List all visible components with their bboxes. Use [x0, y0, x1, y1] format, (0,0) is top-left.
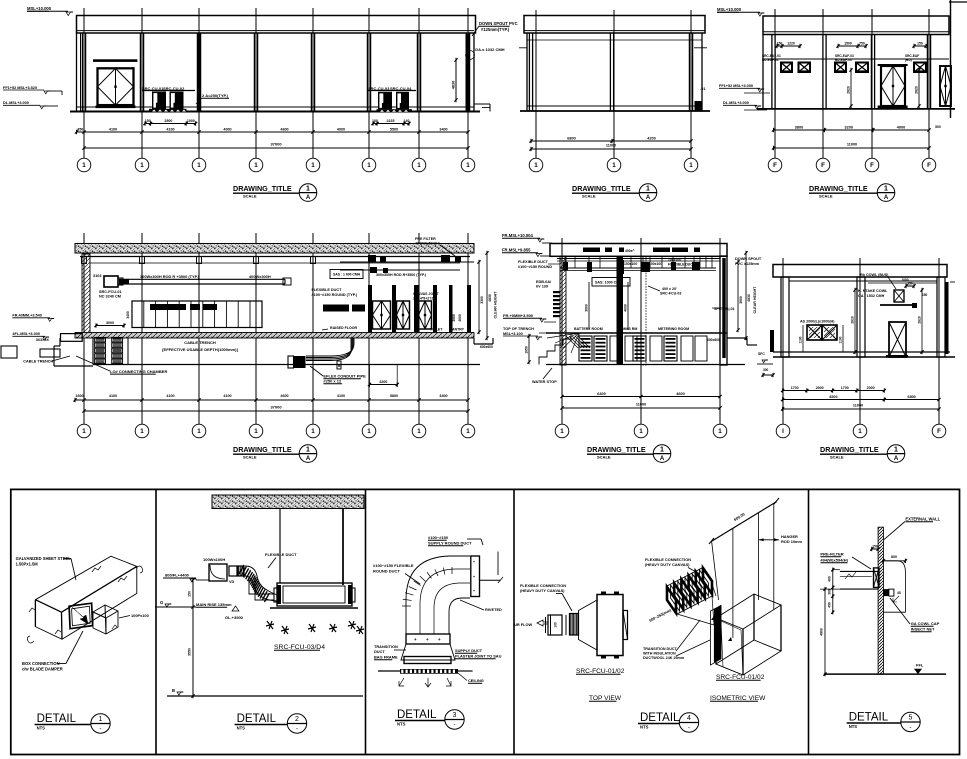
switchgear lineup — [132, 301, 262, 328]
section 1 roof hangers — [82, 257, 87, 264]
section 3 roof slab — [773, 265, 947, 278]
svg-text:600x600: 600x600 — [480, 345, 493, 349]
svg-text:1100: 1100 — [799, 336, 803, 343]
intake louver window 2 — [822, 325, 837, 340]
svg-text:BU-EAF-01: BU-EAF-01 — [762, 58, 779, 62]
svg-text:F: F — [821, 162, 825, 169]
filter box on wall — [874, 568, 880, 588]
svg-text:4000: 4000 — [223, 127, 231, 131]
svg-text:1000: 1000 — [901, 278, 908, 282]
isometric transition duct — [677, 584, 716, 625]
svg-text:3200: 3200 — [379, 380, 387, 384]
svg-text:3400: 3400 — [126, 311, 130, 319]
svg-text:8200: 8200 — [829, 395, 837, 399]
svg-text:AS 2000(L)x1000(H): AS 2000(L)x1000(H) — [800, 320, 835, 324]
svg-text:F: F — [870, 162, 874, 169]
stairs hatch — [566, 336, 578, 348]
room door 1 — [373, 301, 391, 329]
svg-text:300x300H ROD R+3500 (TYP.): 300x300H ROD R+3500 (TYP.) — [376, 273, 427, 277]
svg-text:1: 1 — [718, 428, 722, 435]
svg-text:K. NTAKE COWL: K. NTAKE COWL — [858, 289, 888, 293]
svg-text:SRC-FCU-01: SRC-FCU-01 — [99, 290, 122, 294]
svg-text:#100~#150 ROUND: #100~#150 ROUND — [518, 265, 552, 269]
vertical supply duct — [471, 556, 480, 597]
svg-text:4: 4 — [687, 715, 691, 722]
elevation 3 total dimension 11000 — [774, 147, 930, 149]
svg-text:150: 150 — [145, 119, 151, 123]
dim 1000 top right — [868, 282, 937, 284]
vertical dim right section 3 — [921, 290, 923, 352]
room door 3 — [419, 301, 432, 329]
diffuser grille ticks — [402, 670, 404, 674]
svg-text:DETAIL: DETAIL — [397, 709, 437, 721]
svg-text:3800: 3800 — [795, 125, 803, 129]
wireframe inner opening — [721, 621, 743, 675]
transition trapezoid — [401, 644, 455, 660]
svg-text:2820: 2820 — [847, 86, 851, 94]
svg-text:4100: 4100 — [109, 394, 117, 398]
flexible duct curve detail2 — [245, 566, 279, 595]
svg-text:1: 1 — [646, 185, 650, 192]
svg-text:1: 1 — [560, 428, 564, 435]
section 3 columns — [781, 277, 789, 357]
section 2 dimension row — [562, 396, 720, 398]
svg-text:400 x 20': 400 x 20' — [662, 287, 677, 291]
svg-text:A: A — [884, 195, 889, 201]
hanger arrow — [759, 538, 764, 541]
svg-text:NTS: NTS — [397, 722, 406, 727]
svg-text:PRE FILTER: PRE FILTER — [415, 237, 436, 241]
elevation 2 ground line — [520, 110, 710, 112]
svg-text:400Wx300H: 400Wx300H — [249, 274, 271, 279]
svg-text:[EFFECTIVE USABLE DEPTH(1000mm: [EFFECTIVE USABLE DEPTH(1000mm)] — [162, 347, 238, 352]
svg-text:CABLE TRENCH: CABLE TRENCH — [23, 360, 53, 364]
accordion outline — [667, 568, 712, 614]
svg-text:(BU): (BU) — [905, 58, 912, 62]
left dimension line detail2 — [192, 580, 194, 696]
elevation 2 grid bubbles — [535, 111, 537, 158]
svg-text:+: + — [426, 637, 429, 642]
svg-text:A: A — [306, 456, 311, 462]
svg-text:2 A=250(TYP.): 2 A=250(TYP.) — [202, 93, 229, 98]
svg-text:2000: 2000 — [867, 386, 875, 390]
elevation 3 door — [878, 64, 908, 66]
svg-text:1: 1 — [197, 162, 201, 169]
svg-text:1: 1 — [140, 162, 144, 169]
cowl vent box — [894, 290, 904, 302]
vertical dim 4800 — [824, 589, 826, 674]
detail divider 4 — [808, 489, 810, 754]
isometric flex accordion — [667, 568, 712, 613]
svg-text:4100: 4100 — [223, 394, 231, 398]
detail divider 2 — [365, 489, 367, 754]
detail divider 3 — [513, 489, 515, 754]
FCU bottom ceiling line — [270, 607, 358, 609]
svg-text:+: + — [473, 575, 475, 579]
section 1 grid bubbles — [83, 390, 85, 424]
svg-text:1: 1 — [99, 716, 103, 723]
conduit connector box — [294, 356, 306, 368]
svg-text:EXTERNAL WALL: EXTERNAL WALL — [905, 517, 940, 522]
downspout bar section 2 — [722, 258, 725, 358]
section 3 door — [889, 322, 906, 357]
svg-text:4100: 4100 — [109, 127, 117, 131]
svg-text:MAIN RISE 135mm: MAIN RISE 135mm — [196, 602, 232, 607]
anchor points — [711, 616, 715, 620]
svg-text:#250 x 12: #250 x 12 — [323, 379, 342, 384]
svg-text:A: A — [306, 195, 311, 201]
svg-text:SCALE: SCALE — [243, 454, 257, 459]
elevation 3 group — [717, 0, 967, 201]
svg-text:3600: 3600 — [452, 314, 456, 322]
svg-text:500: 500 — [935, 125, 941, 129]
svg-text:2?3 4*5+2?2: 2?3 4*5+2?2 — [413, 297, 433, 301]
svg-text:SRC-CU-04: SRC-CU-04 — [390, 86, 412, 91]
dim 3000 — [96, 325, 124, 327]
svg-text:494(W)x594(H): 494(W)x594(H) — [415, 242, 441, 246]
duct segments — [229, 566, 237, 576]
elevation 1 ground line — [70, 111, 480, 113]
svg-text:400x^: 400x^ — [625, 249, 635, 253]
svg-text:SFC-+01|-01: SFC-+01|-01 — [714, 307, 735, 311]
svg-text:3300: 3300 — [480, 296, 484, 304]
elevation 2 columns — [528, 33, 530, 111]
svg-text:4830: 4830 — [452, 81, 456, 89]
svg-text:DL.MSL+3.000: DL.MSL+3.000 — [3, 101, 29, 105]
elevation 1 total dimension 37000 — [84, 147, 468, 149]
svg-text:800: 800 — [891, 555, 897, 559]
svg-text:A: A — [894, 456, 899, 462]
svg-text:DUCTWOOL 24K 25mm: DUCTWOOL 24K 25mm — [643, 656, 685, 660]
svg-text:COMMS RM: COMMS RM — [617, 327, 637, 331]
right downspout section 3 — [946, 282, 949, 354]
grid lines section 3 — [782, 258, 784, 424]
svg-text:SCALE: SCALE — [243, 193, 257, 198]
svg-text:1: 1 — [466, 162, 470, 169]
svg-text:SRC-FCU-03: SRC-FCU-03 — [660, 292, 681, 296]
svg-text:1: 1 — [82, 428, 86, 435]
louver dims 150 1220 — [777, 45, 800, 47]
svg-text:DOWN SPOUT: DOWN SPOUT — [735, 257, 762, 261]
svg-text:GA.s 1032 CMH: GA.s 1032 CMH — [475, 47, 505, 52]
elevation 3 grid bubbles — [774, 109, 776, 158]
svg-text:150: 150 — [188, 591, 192, 597]
svg-text:SFC: SFC — [758, 352, 765, 356]
elevation 1 door D1 — [93, 59, 137, 62]
section 3 floor lines — [773, 351, 950, 353]
section 1 duct zone right black fittings — [368, 255, 376, 262]
svg-text:DRAWING_TITLE: DRAWING_TITLE — [233, 184, 292, 193]
svg-text:NTS: NTS — [37, 726, 46, 731]
section 2 floor line — [546, 332, 727, 334]
elevation 3 wall outline — [762, 35, 764, 109]
svg-text:140: 140 — [404, 119, 410, 123]
svg-text:ROD 10mm: ROD 10mm — [781, 539, 803, 544]
elevation 1 wall outline — [76, 33, 78, 112]
svg-text:CABLE TRENCH: CABLE TRENCH — [184, 340, 216, 345]
hanger rod right — [342, 509, 344, 586]
cowl angle arrow — [893, 596, 899, 602]
svg-text:NTS: NTS — [640, 725, 649, 730]
svg-text:-: - — [99, 726, 101, 733]
branch break mark — [112, 625, 117, 629]
svg-text:PVC #125mm: PVC #125mm — [735, 262, 760, 266]
vertical dim 2820 section 3 — [854, 290, 856, 352]
svg-text:1: 1 — [140, 428, 144, 435]
elevation 1 sill line — [77, 106, 475, 108]
svg-text:INSECT NET: INSECT NET — [911, 627, 935, 632]
ceiling diffuser lines — [378, 670, 400, 672]
svg-text:1: 1 — [534, 162, 538, 169]
svg-text:1: 1 — [367, 162, 371, 169]
svg-text:L-2 7/8: L-2 7/8 — [655, 249, 666, 253]
svg-text:METERING ROOM: METERING ROOM — [658, 327, 689, 331]
grid lines elevation 2 — [535, 10, 537, 158]
svg-text:F: F — [927, 162, 931, 169]
detail 1 group — [16, 556, 149, 733]
svg-text:1: 1 — [894, 446, 898, 453]
svg-text:300: 300 — [763, 368, 769, 372]
fan coil unit SRC-FCU-01 — [104, 276, 118, 287]
svg-text:FF1+52 MSL+3.520: FF1+52 MSL+3.520 — [3, 86, 37, 90]
dim 1950 stairs — [528, 336, 530, 362]
section 2 bottom step right — [727, 337, 747, 339]
ground line detail5 — [824, 673, 946, 675]
dim 4830 vertical — [455, 60, 457, 100]
kerb step right of elevation 1 — [474, 103, 490, 105]
break symbol dim — [845, 572, 856, 579]
condenser base hatch bar 2 — [377, 109, 412, 112]
svg-text:NTS: NTS — [849, 724, 858, 729]
supply duct black bars — [323, 305, 349, 312]
stairs section 2 — [539, 333, 579, 365]
svg-text:-: - — [688, 725, 690, 732]
left wall louver — [553, 291, 560, 293]
svg-text:NC 3240 CM: NC 3240 CM — [99, 295, 121, 299]
condenser sub-dimension row 2 — [373, 123, 409, 125]
svg-text:1100: 1100 — [839, 336, 843, 343]
condenser base hatch bar — [149, 109, 187, 112]
svg-text:ROUND DUCT: ROUND DUCT — [373, 569, 400, 574]
top view inlet duct — [548, 615, 562, 635]
detail 2 group — [155, 495, 364, 733]
svg-text:300Wx300H ROD R +3500 (TYP.): 300Wx300H ROD R +3500 (TYP.) — [140, 274, 200, 279]
svg-text:11000: 11000 — [853, 404, 863, 408]
isometric FCU wireframe box — [716, 594, 781, 629]
section 2 group — [502, 233, 762, 462]
grid lines elevation 3 — [774, 9, 776, 158]
svg-text:#100~#150 ROUND (TYP.): #100~#150 ROUND (TYP.) — [312, 293, 358, 297]
room partition walls — [368, 285, 372, 332]
section 1 grid dimension row — [75, 399, 468, 401]
svg-text:Rb COWL (BUS): Rb COWL (BUS) — [860, 273, 889, 277]
svg-text:-: - — [909, 724, 911, 731]
svg-text:FR.MSL+9.855: FR.MSL+9.855 — [502, 248, 531, 253]
svg-text:FF1+52 MSL+3.000: FF1+52 MSL+3.000 — [719, 84, 753, 88]
svg-text:SCALE: SCALE — [830, 454, 844, 459]
svg-text:FLEXIBLE DUCT: FLEXIBLE DUCT — [518, 260, 549, 264]
svg-text:5800: 5800 — [390, 394, 398, 398]
svg-text:1: 1 — [639, 428, 643, 435]
downspout at grid 3 — [198, 33, 201, 112]
svg-text:B: B — [172, 688, 175, 693]
section 2 bottom line — [546, 364, 745, 366]
svg-text:2820: 2820 — [915, 86, 919, 94]
section 3 interior ceiling line — [789, 280, 937, 282]
FCU left cap — [277, 585, 281, 604]
svg-text:1: 1 — [367, 428, 371, 435]
label SAS 600 CMH — [330, 270, 363, 279]
svg-text:100x100: 100x100 — [668, 258, 681, 262]
svg-text:150: 150 — [777, 41, 783, 45]
detail sheet frame — [11, 489, 960, 754]
svg-text:FLEXIBLE DUCT: FLEXIBLE DUCT — [312, 288, 343, 292]
svg-text:F: F — [937, 428, 941, 435]
section 1 eave line — [80, 256, 470, 258]
break loop symbol left — [27, 636, 34, 643]
supply grille box — [209, 564, 227, 581]
svg-text:3550: 3550 — [188, 648, 192, 656]
elevation 2 total dimension 11000 — [531, 148, 691, 150]
section 2 below-roof duct lines — [557, 258, 720, 260]
svg-text:1700: 1700 — [841, 386, 849, 390]
svg-text:100: 100 — [372, 119, 378, 123]
elbow into FCU — [249, 578, 274, 594]
svg-text:G: G — [160, 600, 163, 605]
vertical dim 4000 comms — [627, 282, 629, 330]
duct side line with break — [480, 579, 501, 581]
svg-text:LO# CONNECTING CHAMBER: LO# CONNECTING CHAMBER — [110, 369, 167, 374]
svg-text:1950: 1950 — [525, 346, 529, 354]
elevation 1 column grid lines — [81, 33, 83, 112]
svg-text:2: 2 — [295, 716, 299, 723]
svg-text:750: 750 — [859, 41, 865, 45]
section 1 left wall hatched — [82, 254, 90, 334]
svg-text:1: 1 — [82, 162, 86, 169]
svg-text:1: 1 — [306, 185, 310, 192]
elevation 2 column ticks — [519, 47, 527, 49]
svg-text:MSL+10.000: MSL+10.000 — [27, 6, 52, 11]
external wall hatched bar — [878, 527, 883, 674]
svg-text:800/FL+4400: 800/FL+4400 — [165, 573, 190, 578]
section 3 dimension row 2 — [783, 399, 939, 401]
duct hangers section 2 — [564, 256, 566, 268]
svg-text:FFL: FFL — [916, 663, 924, 668]
svg-text:GA : 1532 CMH: GA : 1532 CMH — [858, 294, 885, 298]
svg-text:1: 1 — [311, 428, 315, 435]
section 2 wall 3 dotted — [641, 256, 646, 365]
vertical dim 3600 battery — [588, 282, 590, 330]
svg-text:11000: 11000 — [606, 144, 616, 148]
svg-text:BAG FRAME: BAG FRAME — [374, 655, 398, 660]
svg-text:GALVANIZED SHEET STEEL: GALVANIZED SHEET STEEL — [16, 556, 72, 561]
svg-text:1: 1 — [660, 446, 664, 453]
svg-text:PRE-FILTER: PRE-FILTER — [820, 552, 843, 557]
svg-text:5: 5 — [909, 715, 913, 722]
svg-text:TOILET: TOILET — [430, 328, 443, 332]
left step blocks — [61, 334, 83, 342]
top view transition — [579, 600, 598, 650]
elevation 3 columns — [771, 35, 773, 109]
svg-text:#100~#150 FLEXIBLE: #100~#150 FLEXIBLE — [373, 563, 414, 568]
section 2 grid bubbles — [561, 390, 563, 424]
elevation 3 ground line — [757, 108, 955, 110]
svg-text:4100: 4100 — [166, 127, 174, 131]
louver sill dims — [802, 325, 804, 352]
louver dims 1500 750 — [838, 45, 866, 47]
svg-text:1: 1 — [858, 428, 862, 435]
svg-text:DRAWING_TITLE: DRAWING_TITLE — [233, 445, 292, 454]
svg-text:+: + — [473, 560, 475, 564]
svg-text:CLEAR HEIGHT: CLEAR HEIGHT — [753, 286, 757, 314]
svg-text:SUPPLY ROUND DUCT: SUPPLY ROUND DUCT — [428, 541, 472, 546]
flex duct corrugation — [239, 565, 244, 574]
section 1 total dimension 37000 — [84, 410, 468, 412]
svg-text:4000: 4000 — [897, 125, 905, 129]
section 3 total dimension 11000 — [783, 408, 939, 410]
louver dim 150 — [914, 45, 926, 47]
interior shelf line — [880, 304, 917, 306]
svg-text:4000: 4000 — [458, 314, 462, 322]
svg-text:3X3X3X: 3X3X3X — [36, 338, 50, 342]
svg-text:DRAWING_TITLE: DRAWING_TITLE — [809, 184, 868, 193]
trench end box far left — [1, 346, 17, 358]
svg-text:4100: 4100 — [337, 394, 345, 398]
conduit arcs — [306, 338, 354, 356]
long supply duct — [119, 278, 285, 280]
svg-text:45: 45 — [897, 591, 901, 595]
svg-text:1: 1 — [197, 428, 201, 435]
svg-text:2500: 2500 — [164, 119, 172, 123]
duct break marks — [92, 566, 101, 572]
svg-text:DETAIL: DETAIL — [237, 713, 277, 725]
svg-text:3000: 3000 — [106, 321, 114, 325]
svg-text:3200: 3200 — [845, 125, 853, 129]
svg-text:1: 1 — [306, 446, 310, 453]
cowl inner box — [883, 589, 889, 596]
svg-text:1: 1 — [311, 162, 315, 169]
svg-text:1.50Px1.5M: 1.50Px1.5M — [16, 562, 39, 567]
upper duct lines right part — [340, 261, 474, 263]
below floor equipment blocks — [579, 336, 592, 361]
svg-text:450: 450 — [77, 127, 83, 131]
section 2 left wall — [560, 256, 566, 365]
section 3 group — [757, 265, 955, 463]
svg-text:SRC-CU-02: SRC-CU-02 — [163, 86, 185, 91]
svg-text:2820: 2820 — [918, 316, 922, 324]
grid lines section 2 — [561, 238, 563, 424]
cable trench outline — [59, 338, 61, 346]
IDE connection blocks — [95, 338, 106, 342]
svg-text:4830: 4830 — [488, 294, 492, 302]
top view FCU outlet — [623, 611, 628, 640]
svg-text:1: 1 — [466, 428, 470, 435]
svg-text:6800: 6800 — [908, 395, 916, 399]
condenser sub-dimension row — [145, 123, 196, 125]
svg-text:DETAIL: DETAIL — [849, 712, 889, 724]
SAS 1000 CMH label box — [592, 278, 630, 287]
svg-text:494(W)x594(H): 494(W)x594(H) — [820, 558, 848, 563]
roof equipment black dashes — [583, 248, 600, 253]
svg-text:150x100: 150x100 — [624, 262, 637, 266]
svg-text:3400: 3400 — [439, 127, 447, 131]
svg-text:NTS: NTS — [237, 726, 246, 731]
air flow arrows detail3 — [399, 678, 404, 686]
section 3 grid bubbles — [782, 382, 784, 424]
dim 150 wall — [872, 548, 878, 550]
svg-text:c/w BLADE DAMPER: c/w BLADE DAMPER — [22, 667, 63, 672]
svg-text:2820: 2820 — [851, 316, 855, 324]
